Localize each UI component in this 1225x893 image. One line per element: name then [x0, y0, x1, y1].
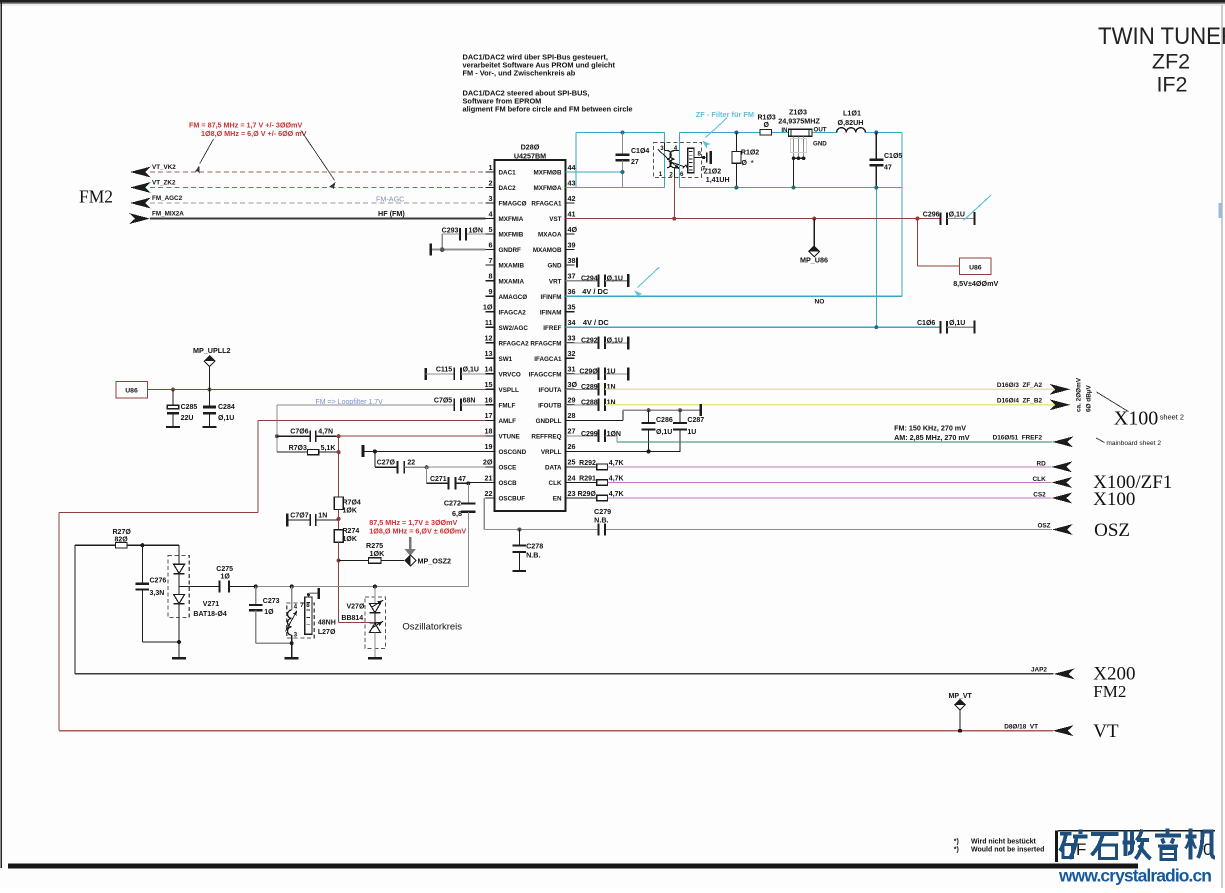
svg-text:sheet 2: sheet 2: [1160, 412, 1184, 421]
wire VSPLL: [148, 389, 486, 391]
wire OSZ: [484, 529, 598, 531]
svg-text:Ø,1U: Ø,1U: [463, 367, 479, 374]
capacitor C106: [917, 320, 974, 334]
svg-text:Ø,1U: Ø,1U: [607, 338, 623, 345]
wire annotation diag C296: [964, 195, 991, 220]
svg-text:1U: 1U: [607, 369, 616, 376]
svg-text:6Ø dBµV: 6Ø dBµV: [1086, 384, 1093, 412]
svg-text:R29Ø: R29Ø: [578, 491, 597, 498]
svg-text:MXAMIB: MXAMIB: [499, 263, 525, 270]
svg-text:MXFMIA: MXFMIA: [499, 216, 524, 223]
wire right page border: [1221, 5, 1223, 888]
svg-text:4V / DC: 4V / DC: [582, 287, 609, 296]
svg-text:MXFMIB: MXFMIB: [499, 232, 524, 239]
ground V270: [368, 657, 382, 659]
svg-text:8: 8: [306, 602, 310, 609]
svg-text:1N: 1N: [318, 513, 327, 520]
svg-text:C7Ø6: C7Ø6: [290, 429, 308, 436]
svg-text:FM-AGC: FM-AGC: [376, 194, 404, 203]
svg-text:4,7K: 4,7K: [609, 476, 624, 483]
svg-text:47: 47: [458, 476, 466, 483]
svg-text:L27Ø: L27Ø: [318, 629, 336, 636]
capacitor C293: [442, 227, 486, 249]
svg-text:RFAGCA2: RFAGCA2: [499, 340, 530, 347]
wire MXFM0B pin44 cyan: [566, 171, 623, 173]
wire GNDPLL pin28 jog: [566, 419, 624, 421]
svg-text:X100: X100: [1114, 408, 1158, 430]
wire U86 right branch: [916, 219, 918, 266]
resistor R290: [566, 491, 624, 501]
svg-text:36: 36: [568, 287, 576, 296]
svg-text:VT_VK2: VT_VK2: [152, 164, 176, 171]
svg-text:12: 12: [485, 334, 493, 343]
svg-text:C273: C273: [263, 598, 280, 605]
node RD arrow: [1051, 461, 1072, 472]
wire top window bar: [0, 0, 1225, 2]
svg-text:OUT: OUT: [814, 126, 827, 133]
svg-text:FM: 150 KHz, 270 mV: FM: 150 KHz, 270 mV: [894, 424, 966, 433]
transformer Z102: [654, 142, 730, 184]
svg-text:VSPLL: VSPLL: [499, 387, 519, 394]
svg-text:Would not be inserted: Would not be inserted: [971, 847, 1044, 854]
svg-text:MP_OSZ2: MP_OSZ2: [418, 557, 452, 566]
svg-text:C286: C286: [656, 417, 673, 424]
svg-text:IN: IN: [781, 127, 788, 134]
svg-text:Ø,1U: Ø,1U: [949, 320, 965, 327]
svg-text:RFAGCFM: RFAGCFM: [530, 340, 561, 347]
diode V271 BAT18-04: [168, 545, 227, 642]
svg-text:C7Ø7: C7Ø7: [290, 513, 308, 520]
svg-text:7: 7: [300, 602, 304, 609]
svg-text:2: 2: [489, 178, 493, 187]
svg-text:C29Ø: C29Ø: [579, 369, 598, 376]
svg-text:8: 8: [489, 272, 493, 281]
svg-text:19: 19: [485, 442, 493, 451]
svg-text:C115: C115: [436, 367, 452, 374]
svg-text:MP_UPLL2: MP_UPLL2: [193, 346, 231, 355]
svg-text:24,9375MHZ: 24,9375MHZ: [778, 117, 820, 126]
svg-text:41: 41: [568, 209, 576, 218]
svg-text:F: F: [1076, 840, 1086, 859]
svg-text:D8Ø/18 VT: D8Ø/18 VT: [1004, 724, 1038, 731]
svg-text:4,7K: 4,7K: [609, 491, 624, 498]
svg-text:Z1Ø2: Z1Ø2: [704, 168, 722, 175]
svg-text:NO: NO: [815, 299, 825, 306]
svg-text:*): *): [954, 838, 959, 845]
ground V271: [178, 642, 180, 658]
svg-text:1ØK: 1ØK: [370, 549, 386, 558]
svg-text:DAC1: DAC1: [499, 170, 517, 177]
svg-text:AMAGCØ: AMAGCØ: [499, 294, 528, 301]
wire annotation arrow 1: [200, 139, 214, 164]
svg-text:48NH: 48NH: [318, 620, 336, 627]
svg-text:OSCGND: OSCGND: [499, 449, 527, 456]
capacitor C270: [375, 451, 427, 473]
wire OSCE pin20: [427, 466, 486, 468]
wire IFINFM pin36: [566, 295, 903, 297]
node terminal pin6: [429, 244, 432, 256]
svg-text:CS2: CS2: [1033, 491, 1046, 498]
svg-text:1Ø8,Ø MHz = 6,Ø V +/- 6ØØ mV: 1Ø8,Ø MHz = 6,Ø V +/- 6ØØ mV: [201, 129, 307, 138]
svg-text:GND: GND: [813, 141, 827, 148]
wire FREF2 green: [617, 441, 1052, 443]
wire C276 bottom: [142, 641, 179, 643]
svg-text:C1Ø4: C1Ø4: [631, 148, 649, 155]
wire MXFM0A pin43 cyan + filter left box: [566, 187, 665, 189]
svg-text:R291: R291: [579, 476, 596, 483]
resistor R703: [277, 445, 339, 455]
svg-text:FM2: FM2: [79, 187, 113, 207]
svg-text:Oszillatorkreis: Oszillatorkreis: [402, 622, 462, 633]
node FREF2 arrow: [1052, 436, 1073, 447]
node X200 arrow: [1054, 668, 1075, 679]
svg-text:13: 13: [485, 349, 493, 358]
svg-text:1: 1: [659, 171, 663, 178]
wire FM_AGC2 dashed: [150, 202, 486, 204]
node VT arrow: [1053, 725, 1074, 736]
svg-text:EN: EN: [553, 496, 562, 503]
svg-text:28: 28: [568, 411, 576, 420]
svg-text:21: 21: [485, 473, 493, 482]
svg-text:IFAGCA2: IFAGCA2: [499, 309, 527, 316]
svg-text:Wird nicht bestückt: Wird nicht bestückt: [971, 838, 1037, 845]
wire filter right box cyan: [679, 133, 681, 188]
wire OSCBUF pin22 jog: [484, 497, 485, 499]
wire RD purple: [608, 466, 1052, 468]
svg-text:R7Ø3: R7Ø3: [289, 445, 307, 452]
wire VT_ZK2 dashed: [150, 187, 486, 189]
svg-text:JAP2: JAP2: [1031, 667, 1047, 674]
resistor R102: [732, 131, 759, 190]
svg-text:4,7K: 4,7K: [609, 460, 624, 467]
resistor R274: [334, 528, 359, 543]
wire VST pin41: [566, 218, 941, 220]
svg-text:GNDRF: GNDRF: [499, 247, 522, 254]
svg-text:1,41UH: 1,41UH: [706, 177, 730, 184]
wire oscillator rail: [256, 586, 469, 588]
svg-text:8,5V±4ØØmV: 8,5V±4ØØmV: [953, 279, 998, 288]
svg-text:47: 47: [884, 165, 892, 172]
svg-text:1Ø: 1Ø: [264, 609, 274, 616]
svg-text:C284: C284: [218, 404, 235, 411]
svg-text:3: 3: [294, 631, 298, 638]
svg-text:4: 4: [489, 209, 493, 218]
svg-text:X100: X100: [1093, 489, 1135, 510]
svg-text:43: 43: [568, 178, 576, 187]
svg-text:34: 34: [568, 318, 576, 327]
wire X200 rail: [75, 673, 1054, 675]
svg-text:1ØN: 1ØN: [469, 227, 483, 234]
svg-text:23: 23: [568, 489, 576, 498]
svg-text:7: 7: [489, 256, 493, 265]
capacitor C278 N.B.: [513, 528, 544, 571]
svg-text:C289: C289: [581, 384, 598, 391]
svg-text:IF2: IF2: [1156, 73, 1187, 97]
wire IFREF riser: [875, 188, 877, 328]
svg-text:BB814: BB814: [341, 615, 363, 622]
resistor R704: [334, 497, 361, 514]
svg-text:C288: C288: [581, 400, 598, 407]
svg-text:DAC2: DAC2: [499, 185, 517, 192]
svg-text:SW2/AGC: SW2/AGC: [499, 325, 529, 332]
svg-text:MXAMIA: MXAMIA: [499, 278, 525, 285]
svg-text:FMAGCØ: FMAGCØ: [499, 201, 527, 208]
wire ZF_A2 yellow: [605, 388, 1070, 390]
node OSZ arrow: [1052, 524, 1073, 535]
svg-text:VRVCO: VRVCO: [499, 371, 521, 378]
svg-text:IFAGCCFM: IFAGCCFM: [529, 371, 562, 378]
resistor R275: [339, 541, 404, 563]
node CLK arrow: [1051, 477, 1072, 488]
wire FM_MIX2A: [150, 218, 486, 220]
filter Z103: [778, 108, 827, 190]
capacitor C296: [923, 211, 975, 225]
svg-text:4: 4: [294, 603, 298, 610]
capacitor C115: [426, 367, 486, 380]
svg-text:17: 17: [485, 411, 493, 420]
svg-text:2: 2: [669, 172, 673, 179]
ground L270: [291, 643, 293, 658]
svg-text:6: 6: [680, 171, 684, 178]
svg-text:VST: VST: [549, 216, 561, 223]
svg-text:25: 25: [568, 458, 576, 467]
wire VT_VK2 dashed: [150, 171, 486, 173]
svg-text:22: 22: [407, 460, 415, 467]
capacitor C294: [566, 274, 629, 287]
svg-text:aligment FM before circle and: aligment FM before circle and FM between…: [463, 104, 633, 113]
wire FMLF vertical: [276, 405, 278, 452]
capacitor C288: [566, 399, 616, 411]
wire VTUNE: [339, 435, 486, 437]
svg-text:1U: 1U: [687, 429, 696, 436]
svg-text:C272: C272: [444, 499, 461, 508]
svg-text:R1Ø2: R1Ø2: [741, 150, 759, 157]
svg-text:3: 3: [489, 194, 493, 203]
svg-text:V271: V271: [203, 601, 219, 608]
svg-text:14: 14: [485, 365, 493, 374]
node MP_VT: [958, 729, 962, 733]
svg-text:VT: VT: [1093, 721, 1119, 742]
node title block fragment: [1055, 830, 1058, 862]
svg-text:ZF2: ZF2: [1152, 50, 1190, 74]
svg-text:IFOUTA: IFOUTA: [539, 387, 562, 394]
svg-text:2Ø: 2Ø: [483, 458, 493, 467]
svg-text:MP_VT: MP_VT: [949, 693, 973, 700]
svg-text:22: 22: [485, 489, 493, 498]
svg-text:42: 42: [568, 194, 576, 203]
svg-text:R7Ø4: R7Ø4: [343, 500, 361, 507]
wire VST drop from Z102 pin2: [673, 178, 675, 219]
svg-text:Ø: Ø: [764, 122, 770, 129]
wire loopfilter vertical: [338, 436, 340, 497]
svg-text:4,7N: 4,7N: [318, 429, 333, 436]
svg-text:1Ø: 1Ø: [483, 303, 493, 312]
varactor V270 BB814: [341, 587, 385, 659]
capacitor C284: [203, 388, 235, 428]
wire OSCGND pin19: [363, 450, 486, 452]
wire VRPLL pin26: [566, 450, 681, 452]
svg-text:ZF - Filter für FM: ZF - Filter für FM: [696, 110, 754, 119]
svg-text:VTUNE: VTUNE: [499, 434, 520, 441]
svg-text:IFINFM: IFINFM: [541, 294, 562, 301]
resistor R292: [566, 460, 624, 470]
svg-text:22U: 22U: [181, 415, 194, 422]
svg-text:MXAMOB: MXAMOB: [533, 247, 562, 254]
svg-text:4Ø: 4Ø: [568, 225, 578, 234]
svg-text:Ø,1U: Ø,1U: [218, 415, 234, 422]
svg-text:IFAGCA1: IFAGCA1: [534, 356, 562, 363]
node terminal pin38: [576, 257, 578, 267]
capacitor C299: [566, 430, 622, 442]
wire varactor feed: [339, 622, 375, 624]
capacitor C707: [287, 513, 339, 527]
svg-text:RFAGCA1: RFAGCA1: [531, 201, 562, 208]
svg-text:33: 33: [568, 334, 576, 343]
svg-text:OSCBUF: OSCBUF: [499, 496, 526, 503]
node terminal pin19: [362, 445, 365, 457]
wire GNDRF pin6: [431, 249, 486, 251]
svg-text:37: 37: [568, 272, 576, 281]
svg-text:5,1K: 5,1K: [321, 445, 336, 452]
svg-text:V27Ø: V27Ø: [347, 604, 365, 611]
capacitor C285: [166, 388, 197, 428]
resistor R103: [758, 114, 776, 134]
svg-text:REFFREQ: REFFREQ: [531, 434, 561, 441]
node MP_UPLL2: [209, 366, 211, 390]
svg-text:FM - Vor-, und Zwischenkreis a: FM - Vor-, und Zwischenkreis ab: [463, 68, 576, 77]
svg-text:RD: RD: [1036, 460, 1046, 467]
svg-text:D16Ø/4 ZF_B2: D16Ø/4 ZF_B2: [997, 397, 1043, 404]
svg-text:16: 16: [485, 396, 493, 405]
wire pointer to mainboard: [1096, 438, 1105, 443]
svg-text:VRPLL: VRPLL: [541, 449, 562, 456]
svg-text:R292: R292: [579, 460, 596, 467]
wire oscillator left loop: [74, 545, 76, 674]
svg-text:OSZ: OSZ: [1037, 522, 1050, 529]
svg-text:BAT18-Ø4: BAT18-Ø4: [193, 611, 226, 618]
capacitor C271: [427, 467, 469, 489]
svg-text:IFOUTB: IFOUTB: [538, 402, 562, 409]
svg-text:L1Ø1: L1Ø1: [843, 109, 861, 118]
wire ZF_B2 yellow: [605, 404, 1070, 406]
node watermark chinese 矿石收音机 (hand-drawn strokes): [1060, 829, 1215, 860]
capacitor C706: [275, 429, 339, 442]
svg-text:24: 24: [568, 473, 576, 482]
capacitor C272: [444, 483, 476, 586]
svg-text:Z1Ø3: Z1Ø3: [789, 108, 807, 117]
svg-text:3Ø: 3Ø: [568, 380, 578, 389]
capacitor C289: [566, 383, 616, 395]
op-amp U1 IC U4257BM D280: [483, 143, 578, 512]
svg-text:MXAOA: MXAOA: [538, 232, 562, 239]
svg-text:C287: C287: [687, 417, 704, 424]
svg-text:N.B.: N.B.: [594, 515, 608, 524]
svg-text:mainboard sheet 2: mainboard sheet 2: [1106, 440, 1161, 447]
svg-text:39: 39: [568, 240, 576, 249]
node U86 supply box right: [960, 258, 991, 274]
capacitor C273: [249, 587, 292, 644]
svg-text:N.B.: N.B.: [526, 551, 540, 560]
svg-text:C276: C276: [150, 578, 167, 585]
svg-text:Ø,1U: Ø,1U: [656, 429, 672, 436]
svg-text:MP_U86: MP_U86: [800, 256, 828, 265]
svg-text:18: 18: [485, 427, 493, 436]
svg-text:38: 38: [568, 256, 576, 265]
svg-text:R1Ø3: R1Ø3: [758, 114, 776, 121]
svg-text:FM2: FM2: [1093, 682, 1126, 701]
wire IFREF pin34: [566, 326, 941, 328]
svg-text:32: 32: [568, 349, 576, 358]
svg-text:VT_ZK2: VT_ZK2: [152, 179, 176, 186]
svg-text:31: 31: [568, 365, 576, 374]
svg-text:DATA: DATA: [545, 465, 562, 472]
node ZF_B2 arrow: [1049, 399, 1070, 410]
svg-text:Ø,1U: Ø,1U: [607, 275, 623, 282]
svg-text:C27Ø: C27Ø: [377, 460, 396, 467]
svg-text:1Ø8,Ø MHz = 6,ØV ± 6ØØmV: 1Ø8,Ø MHz = 6,ØV ± 6ØØmV: [369, 527, 466, 536]
capacitor C275: [179, 566, 256, 593]
svg-text:VRT: VRT: [549, 278, 562, 285]
node ZF_A2 arrow: [1049, 384, 1070, 395]
svg-text:www.crystalradio.cn: www.crystalradio.cn: [1058, 866, 1212, 886]
node MP_U86: [813, 219, 815, 247]
svg-text:Ø,1U: Ø,1U: [949, 211, 965, 218]
svg-text:FMLF: FMLF: [499, 402, 516, 409]
svg-text:FM = 87,5 MHz = 1,7 V +/- 3ØØm: FM = 87,5 MHz = 1,7 V +/- 3ØØmV: [189, 120, 302, 129]
svg-text:D16Ø/51 FREF2: D16Ø/51 FREF2: [993, 435, 1043, 442]
svg-text:C275: C275: [216, 566, 233, 573]
svg-text:C285: C285: [181, 404, 198, 411]
wire pointer to X100: [1097, 392, 1129, 412]
svg-text:C271: C271: [430, 476, 447, 483]
svg-text:HF (FM): HF (FM): [378, 209, 405, 218]
svg-text:C293: C293: [442, 227, 459, 234]
svg-text:OSCE: OSCE: [499, 465, 517, 472]
wire AMLF to VT loop: [258, 419, 486, 421]
svg-text:35: 35: [568, 303, 576, 312]
capacitor C276: [136, 545, 167, 642]
wire annotation arrow IFINFM: [638, 267, 660, 288]
svg-text:82Ø: 82Ø: [115, 536, 129, 543]
svg-text:ca. 2ØØmV: ca. 2ØØmV: [1076, 377, 1083, 412]
capacitor C290: [566, 367, 629, 380]
svg-text:IFINAM: IFINAM: [540, 309, 562, 316]
wire left page border: [0, 2, 2, 868]
svg-text:27: 27: [631, 159, 639, 166]
svg-text:SW1: SW1: [499, 356, 513, 363]
wire CS2 purple: [608, 497, 1052, 499]
svg-text:GNDPLL: GNDPLL: [536, 418, 562, 425]
inductor L270: [286, 587, 336, 639]
capacitor C705: [277, 398, 486, 411]
svg-text:Ø: Ø: [742, 160, 748, 167]
svg-text:68N: 68N: [463, 398, 476, 405]
wire annotation arrow gray: [409, 537, 412, 549]
capacitor C279 N.B.: [594, 507, 611, 536]
svg-text:3,3N: 3,3N: [150, 590, 165, 597]
wire CLK purple: [608, 482, 1052, 484]
capacitor C292: [566, 336, 629, 349]
svg-text:C7Ø5: C7Ø5: [434, 398, 452, 405]
svg-text:3: 3: [660, 145, 664, 152]
resistor R291: [566, 476, 624, 486]
svg-text:C299: C299: [581, 431, 598, 438]
svg-text:MXFMØB: MXFMØB: [534, 170, 562, 177]
svg-text:U4257BM: U4257BM: [514, 152, 546, 161]
svg-text:1Ø: 1Ø: [221, 574, 231, 581]
svg-text:C296: C296: [923, 211, 940, 218]
node MP_OSZ2: [405, 555, 416, 566]
